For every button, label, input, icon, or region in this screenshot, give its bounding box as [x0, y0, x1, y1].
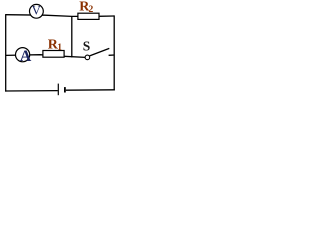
svg-text:A: A — [20, 48, 32, 65]
wire bottom left — [5, 90, 58, 92]
battery short plate — [64, 87, 66, 92]
battery long plate — [57, 84, 59, 96]
ammeter circle — [16, 48, 30, 62]
background — [0, 0, 118, 109]
wire middle row — [6, 55, 86, 58]
wire top — [6, 15, 115, 17]
wire bottom right — [66, 89, 115, 91]
wire vertical branch — [71, 16, 73, 57]
switch lever — [90, 48, 110, 56]
resistor R1 box — [43, 51, 64, 58]
wire left frame — [5, 14, 7, 92]
switch pivot circle — [85, 55, 90, 60]
wire right frame — [113, 15, 115, 90]
resistor R2 box — [78, 13, 99, 19]
svg-text:S: S — [83, 39, 91, 54]
wire switch right stub — [109, 54, 115, 56]
voltmeter U=V circle — [30, 4, 44, 18]
svg-text:V: V — [32, 4, 42, 18]
